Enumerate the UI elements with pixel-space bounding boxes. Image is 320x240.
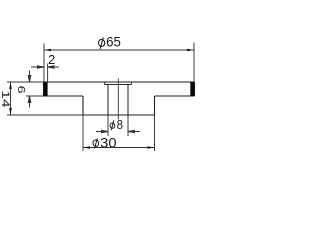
- dim phi8 text phi symbol: [110, 120, 115, 130]
- dim phi30 text phi symbol: [92, 138, 99, 148]
- svg-text:30: 30: [100, 135, 116, 150]
- dim phi30 arrow left: [83, 146, 90, 149]
- dim 14 arrow top: [9, 82, 12, 89]
- bore wall right: [127, 85, 129, 116]
- dim 6 extension line bottom: [26, 95, 44, 97]
- dim phi30 extension line right: [154, 115, 156, 151]
- dim phi65 extension line right: [193, 43, 195, 83]
- dim phi8 arrow right (outside): [128, 130, 140, 132]
- dim 14 extension line bottom: [7, 114, 83, 116]
- dim 14 dimension line: [10, 82, 12, 115]
- svg-text:65: 65: [106, 34, 121, 50]
- center line: [117, 79, 119, 120]
- dim 2 extension line right: [47, 64, 49, 83]
- dim 14 extension line top: [7, 81, 44, 83]
- svg-text:14: 14: [0, 90, 12, 108]
- wheel top flange outline: [44, 82, 195, 96]
- hub outline: [83, 96, 155, 115]
- counterbore recess at top of bore: [105, 82, 132, 85]
- dim phi30 arrow right: [148, 146, 155, 149]
- abrasive segment left (filled black): [43, 82, 47, 96]
- dim phi8 extension line right: [127, 115, 129, 136]
- dim 2 arrow right (outside): [48, 66, 59, 68]
- dim phi65 text phi symbol: [98, 37, 105, 49]
- dim phi65 arrow right: [187, 49, 194, 52]
- dim 14 arrow bottom: [9, 108, 12, 115]
- svg-text:6: 6: [16, 85, 28, 93]
- dim 6 dimension line upper stem with arrow: [28, 71, 31, 83]
- svg-text:8: 8: [117, 117, 123, 132]
- abrasive segment right (filled black): [190, 82, 194, 96]
- dim phi65 extension line left: [43, 44, 45, 83]
- dim phi8 arrow left (outside): [96, 130, 108, 132]
- bore wall left: [107, 85, 109, 116]
- dim 6 dimension line lower stem with arrow: [28, 96, 31, 108]
- dim phi8 extension line left: [107, 115, 109, 136]
- dim phi30 dimension line: [83, 147, 155, 149]
- dim phi65 dimension line: [44, 49, 194, 51]
- svg-text:2: 2: [48, 52, 55, 67]
- dim phi30 extension line left: [82, 115, 84, 151]
- dim 2 arrow left (outside): [31, 66, 44, 68]
- dim phi65 arrow left: [44, 49, 51, 52]
